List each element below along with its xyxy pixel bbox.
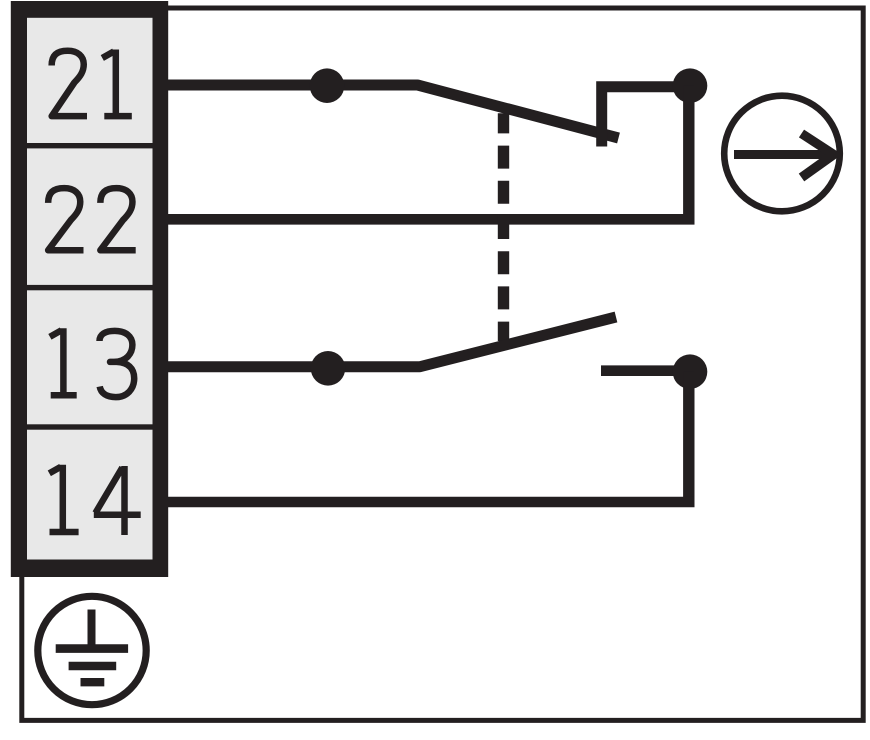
earth bar long [56,644,128,653]
wire from terminal 21 and NC movable blade [166,85,619,138]
junction dot on wire 21 [310,68,345,103]
terminal label 21 [52,50,132,117]
terminal block cell strip [27,18,153,560]
earth vertical stroke [88,610,96,649]
wire from terminal 22 [166,214,695,225]
NC fixed contact hook with positive-opening bar [602,87,690,147]
terminal divider 22/13 [27,285,153,290]
junction dot lower right [673,354,708,389]
actuation direction symbol circle [724,96,840,212]
protective earth symbol circle [38,596,146,704]
actuation arrow shaft [734,150,833,159]
terminal block outer body [11,1,168,577]
earth bar middle [69,662,117,670]
terminal label 13 [50,328,134,397]
mechanical linkage dashed line [498,113,509,341]
terminal label 14 [49,465,140,535]
earth bar short [81,678,105,686]
vertical wire from top-right dot down to wire 22 [683,86,694,220]
terminal label 22 [48,188,136,250]
vertical wire from lower-right dot down to wire 14 [683,372,694,502]
actuation arrow head [802,134,834,178]
wire from terminal 13 and NO movable blade [166,317,616,367]
wire from terminal 14 [166,497,695,508]
terminal divider 13/14 [27,424,153,429]
NO fixed contact stub [601,365,690,376]
terminal divider 21/22 [27,143,153,148]
junction dot on wire 13 [311,351,346,386]
junction dot top right [673,68,708,103]
